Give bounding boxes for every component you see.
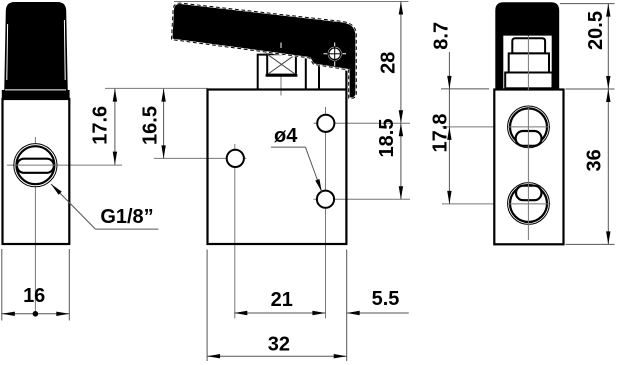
dim 20.5 36 line bbox=[607, 4, 609, 245]
extension line lever top bbox=[174, 1, 409, 3]
svg-text:21: 21 bbox=[271, 289, 293, 311]
hole lower right bbox=[317, 191, 334, 208]
svg-text:ø4: ø4 bbox=[274, 125, 298, 147]
svg-text:36: 36 bbox=[584, 149, 606, 171]
ext below middle body right bbox=[346, 250, 348, 362]
pivot hole circle bbox=[329, 48, 341, 60]
body right view bbox=[494, 90, 563, 245]
dim 16 extension lines bbox=[1, 249, 3, 321]
cap base gap line bbox=[5, 89, 66, 91]
dim 5.5 line bbox=[347, 312, 409, 314]
lower port slot bbox=[516, 186, 542, 201]
dim 17.6 line bbox=[114, 89, 116, 165]
lever black bbox=[172, 3, 357, 98]
dim 21 line bbox=[234, 312, 325, 314]
cap right view black U bbox=[495, 2, 559, 89]
centerline horizontal re-draw over slot bbox=[14, 164, 57, 166]
pivot crosshair black horizontal bbox=[327, 53, 342, 55]
extension line top of middle body bbox=[105, 87, 208, 89]
plunger base right view bbox=[505, 73, 552, 89]
leader G1/8 line bbox=[51, 184, 95, 229]
svg-text:5.5: 5.5 bbox=[372, 288, 400, 310]
port inner circle left view bbox=[16, 146, 54, 184]
pivot crosshair black vertical bbox=[334, 46, 336, 61]
svg-text:32: 32 bbox=[268, 334, 290, 356]
body middle view bbox=[208, 90, 347, 245]
cap boot highlight right bbox=[63, 20, 66, 80]
centerline vertical left view bbox=[34, 137, 36, 316]
cap base plate bbox=[2, 90, 70, 100]
lever dashed outline bbox=[172, 3, 357, 98]
upper port inner circle bbox=[510, 108, 547, 145]
bracket ear right edge bbox=[345, 69, 347, 90]
centerline upper right hole horizontal bbox=[314, 122, 411, 124]
port outer circle left view bbox=[14, 144, 57, 187]
svg-text:18.5: 18.5 bbox=[376, 119, 398, 158]
lever outline white gap bbox=[172, 3, 357, 98]
centerline right holes vertical bbox=[325, 107, 327, 319]
centerline vertical right view bbox=[527, 30, 529, 240]
centerline re-draw over plunger bbox=[527, 37, 529, 91]
centerline lower port horizontal bbox=[442, 203, 555, 205]
body left view bbox=[3, 99, 70, 244]
X diagonal 2 bbox=[267, 54, 296, 74]
plunger centerline tick over lever bbox=[280, 43, 282, 49]
port slot left view bbox=[17, 159, 54, 173]
hole upper right bbox=[317, 115, 334, 132]
cap boot highlight left bbox=[6, 24, 9, 80]
svg-text:28: 28 bbox=[378, 52, 400, 74]
lower port inner circle bbox=[510, 185, 547, 222]
bracket ear left edge bbox=[318, 65, 320, 90]
plunger X-box bbox=[267, 54, 296, 74]
upper port outer circle bbox=[508, 106, 550, 148]
centerline left hole horizontal bbox=[154, 157, 247, 159]
dim 16.5 line bbox=[163, 89, 165, 159]
dim 32 line bbox=[207, 355, 347, 357]
centerline lower right hole horizontal bbox=[314, 198, 411, 200]
pivot crosshair white vertical bbox=[334, 43, 336, 67]
center dot dim 16 bbox=[33, 311, 39, 317]
centerline horizontal left port bbox=[7, 164, 122, 166]
plunger pin right view bbox=[512, 38, 545, 53]
dim 8.7 17.8 line bbox=[448, 52, 450, 204]
dim 28 18.5 line bbox=[400, 2, 402, 200]
svg-text:G1/8”: G1/8” bbox=[100, 206, 153, 228]
lower port outer circle bbox=[508, 183, 550, 225]
svg-text:17.6: 17.6 bbox=[90, 106, 112, 145]
ext cap top right view bbox=[560, 3, 615, 5]
centerline left hole vertical bbox=[234, 144, 236, 319]
ext body top right view bbox=[566, 88, 615, 90]
plunger centerline bbox=[280, 47, 282, 96]
dim 16 line bbox=[2, 313, 70, 315]
svg-text:17.8: 17.8 bbox=[430, 114, 452, 153]
boss plunger guide bbox=[258, 55, 306, 90]
hole left bbox=[227, 150, 244, 167]
svg-text:20.5: 20.5 bbox=[585, 11, 607, 50]
plunger mid right view bbox=[509, 53, 549, 72]
leader o4 line bbox=[271, 146, 306, 148]
upper port slot bbox=[516, 131, 542, 146]
centerline upper port horizontal bbox=[442, 126, 555, 128]
X diagonal 1 bbox=[267, 54, 296, 74]
ext body bottom right view bbox=[566, 243, 615, 245]
cap boot left view bbox=[4, 2, 68, 92]
svg-text:8.7: 8.7 bbox=[431, 22, 453, 50]
pivot crosshair white horizontal bbox=[324, 53, 347, 55]
pivot white disc bbox=[328, 47, 342, 61]
X-box thick bottom bbox=[266, 74, 298, 77]
redraw port centerlines over slots bbox=[508, 126, 549, 128]
ext body top right of 8.7 bbox=[441, 88, 489, 90]
svg-text:16: 16 bbox=[23, 285, 45, 307]
svg-text:16.5: 16.5 bbox=[139, 106, 161, 145]
ext below middle body left bbox=[206, 250, 208, 362]
